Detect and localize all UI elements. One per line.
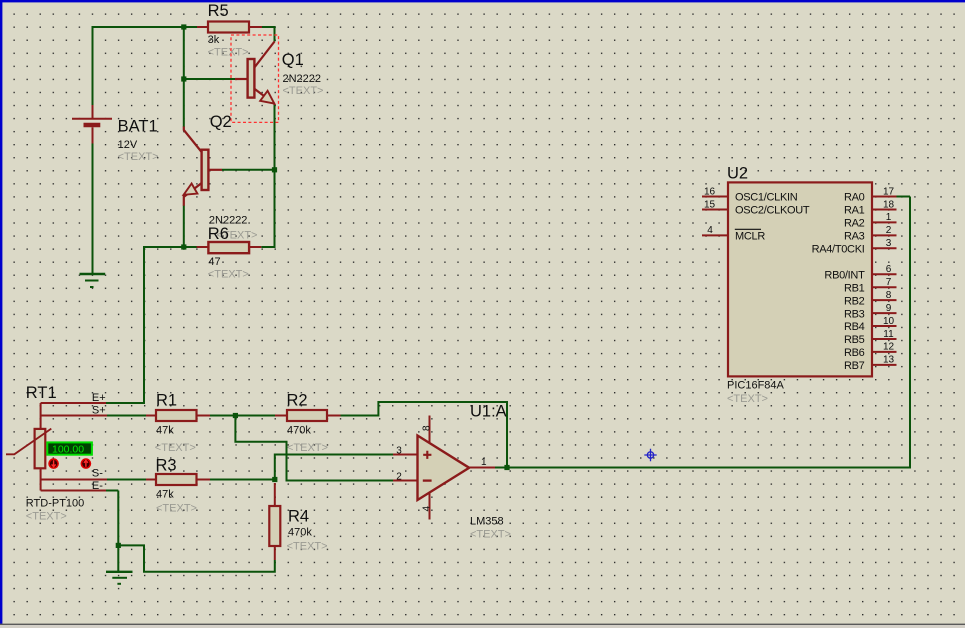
transistor Q2 2N2222 (184, 113, 248, 227)
svg-text:R2: R2 (287, 392, 308, 410)
svg-text:PIC16F84A: PIC16F84A (727, 380, 785, 392)
svg-text:RB5: RB5 (844, 334, 865, 346)
pin 3 RA4/T0CKI (872, 247, 897, 249)
microcontroller U2 PIC16F84A (702, 165, 897, 406)
svg-text:470k: 470k (287, 425, 311, 437)
svg-text:Q2: Q2 (210, 113, 232, 131)
resistor R2 (275, 392, 341, 455)
svg-text:RA2: RA2 (844, 218, 865, 230)
svg-text:8: 8 (422, 425, 433, 431)
svg-text:<TEXT>: <TEXT> (727, 393, 768, 405)
svg-text:470k: 470k (288, 527, 312, 539)
svg-text:RB1: RB1 (844, 282, 865, 294)
svg-text:U2: U2 (727, 165, 748, 183)
resistor R4 (269, 483, 327, 560)
svg-text:<TEXT>: <TEXT> (287, 541, 328, 553)
svg-text:7: 7 (886, 277, 892, 288)
svg-text:<TEXT>: <TEXT> (287, 442, 328, 454)
pin 4 MCLR (702, 234, 728, 236)
wire Q1 emitter down to R6 right (261, 104, 274, 247)
resistor R6 (197, 225, 262, 281)
wire R5 right to Q1 collector (262, 26, 275, 42)
svg-text:LM358: LM358 (470, 516, 504, 528)
svg-text:12V: 12V (118, 139, 138, 151)
svg-text:R6: R6 (208, 225, 229, 243)
pin 17 RA0 (872, 196, 897, 198)
svg-text:1: 1 (481, 457, 487, 468)
svg-text:RB7: RB7 (844, 360, 865, 372)
pin 18 RA1 (872, 209, 897, 211)
pin 11 RB5 (872, 338, 897, 340)
svg-text:<TEXT>: <TEXT> (155, 442, 196, 454)
svg-text:RT1: RT1 (26, 384, 57, 402)
resistor R3 (146, 457, 210, 515)
svg-text:9: 9 (886, 303, 892, 314)
pin 1 RA2 (872, 221, 897, 223)
wire R2 right to feedback top and down to output node (341, 402, 508, 468)
svg-text:10: 10 (883, 316, 895, 327)
wire vertical bus x=184 (Q2 collector / Q1 base net) (183, 26, 185, 127)
svg-text:100.00: 100.00 (52, 444, 84, 456)
svg-text:15: 15 (704, 199, 716, 210)
svg-text:RA4/T0CKI: RA4/T0CKI (812, 244, 865, 256)
svg-text:3: 3 (886, 238, 892, 249)
svg-text:S+: S+ (92, 405, 106, 417)
pin 7 RB1 (872, 286, 897, 288)
transistor Q1 2N2222 (235, 42, 323, 106)
wire R3 right to node (210, 479, 275, 481)
pin 16 OSC1/CLKIN (702, 196, 728, 198)
ground at RT1 return (106, 572, 133, 584)
svg-text:<TEXT>: <TEXT> (470, 529, 511, 541)
svg-text:RB3: RB3 (844, 308, 865, 320)
svg-text:RA3: RA3 (844, 231, 865, 243)
svg-text:3k: 3k (208, 34, 220, 46)
svg-text:E+: E+ (92, 392, 106, 404)
svg-text:E-: E- (92, 480, 103, 492)
svg-text:RB2: RB2 (844, 295, 865, 307)
selection box around Q1 (231, 35, 279, 122)
node Q2 emitter / R6 junction (181, 244, 186, 249)
pin 6 RB0/INT (872, 273, 897, 275)
node Q2 base / Q1 emitter junction (272, 167, 277, 172)
svg-text:RA0: RA0 (844, 192, 865, 204)
wire R1/R2 node down to op-amp pin 2 (235, 416, 393, 481)
battery BAT1 12V (72, 105, 159, 163)
svg-text:4: 4 (707, 225, 713, 236)
svg-text:R4: R4 (288, 508, 309, 526)
svg-text:<TEXT>: <TEXT> (118, 151, 159, 163)
svg-text:RB0/INT: RB0/INT (824, 269, 865, 281)
svg-text:R5: R5 (208, 2, 229, 20)
wire R1 to R2 (210, 415, 275, 417)
wire R4 bottom to ground bus (118, 545, 274, 571)
svg-text:16: 16 (704, 186, 716, 197)
node R3/R4 non-inverting input junction (272, 477, 277, 482)
RTD sensor RT1 (6, 384, 107, 523)
ground below battery (80, 274, 106, 287)
svg-text:6: 6 (886, 264, 892, 275)
origin marker (644, 449, 656, 461)
wire S- to R3 (107, 479, 146, 481)
svg-text:RB6: RB6 (844, 347, 865, 359)
wire Q2 emitter down (183, 206, 185, 248)
resistor R1 (146, 392, 210, 455)
svg-text:3: 3 (396, 445, 402, 456)
svg-text:2: 2 (886, 225, 892, 236)
op-amp U1:A LM358 (393, 403, 511, 541)
node Q1 base junction (181, 76, 186, 81)
svg-text:MCLR: MCLR (735, 231, 765, 243)
node E- ground junction (116, 543, 121, 548)
node op-amp output junction (504, 465, 509, 470)
svg-text:17: 17 (883, 186, 895, 197)
wire E- down to ground (106, 491, 118, 572)
resistor R5 (197, 2, 262, 59)
svg-text:Q1: Q1 (282, 51, 304, 69)
node R1/R2 inverting input junction (233, 413, 238, 418)
svg-text:13: 13 (883, 355, 895, 366)
wire battery negative to ground (92, 144, 94, 274)
pin 13 RB7 (872, 364, 897, 366)
wire battery positive up (92, 26, 94, 105)
pin 2 RA3 (872, 234, 897, 236)
svg-text:4: 4 (422, 506, 433, 512)
svg-text:RB4: RB4 (844, 321, 865, 333)
svg-text:2: 2 (396, 471, 402, 482)
pin 9 RB3 (872, 312, 897, 314)
svg-text:47: 47 (208, 256, 220, 268)
svg-text:RTD-PT100: RTD-PT100 (26, 498, 84, 510)
svg-text:8: 8 (886, 290, 892, 301)
svg-text:RA1: RA1 (844, 205, 865, 217)
svg-text:S-: S- (92, 468, 103, 480)
svg-text:12: 12 (883, 342, 895, 353)
window bottom edge (0, 624, 965, 625)
svg-text:OSC1/CLKIN: OSC1/CLKIN (735, 192, 798, 204)
svg-text:47k: 47k (156, 425, 174, 437)
svg-text:<TEXT>: <TEXT> (283, 85, 324, 97)
svg-text:18: 18 (883, 199, 895, 210)
svg-text:2N2222: 2N2222 (283, 73, 322, 85)
svg-text:BAT1: BAT1 (118, 118, 158, 136)
svg-text:<TEXT>: <TEXT> (26, 511, 67, 523)
pin 10 RB4 (872, 325, 897, 327)
wire Q2 base to emitter bus (222, 169, 275, 171)
wire R6 left down to RT1 E+ (106, 247, 197, 403)
svg-text:R1: R1 (156, 392, 177, 410)
wire S+ to R1 (107, 415, 146, 417)
wire node up to op-amp pin 3 (275, 455, 393, 480)
svg-text:U1:A: U1:A (470, 403, 507, 421)
svg-text:47k: 47k (156, 489, 174, 501)
svg-text:R3: R3 (156, 457, 177, 475)
svg-text:11: 11 (883, 329, 894, 340)
window left border (0, 0, 2, 624)
pin 15 OSC2/CLKOUT (702, 209, 728, 211)
svg-text:OSC2/CLKOUT: OSC2/CLKOUT (735, 205, 810, 217)
svg-text:<TEXT>: <TEXT> (208, 269, 249, 281)
wire Q1 base (184, 78, 235, 80)
wire 12V rail from battery to R5 (93, 26, 198, 28)
node 12V rail / R5 tap junction (181, 24, 186, 29)
window top border (0, 0, 965, 2)
pin 12 RB6 (872, 351, 897, 353)
svg-text:1: 1 (886, 212, 892, 223)
pin 8 RB2 (872, 299, 897, 301)
svg-text:<TEXT>: <TEXT> (156, 503, 197, 515)
svg-text:<TEXT>: <TEXT> (208, 47, 249, 59)
wire op-amp output to U2 RA0 (495, 197, 910, 469)
